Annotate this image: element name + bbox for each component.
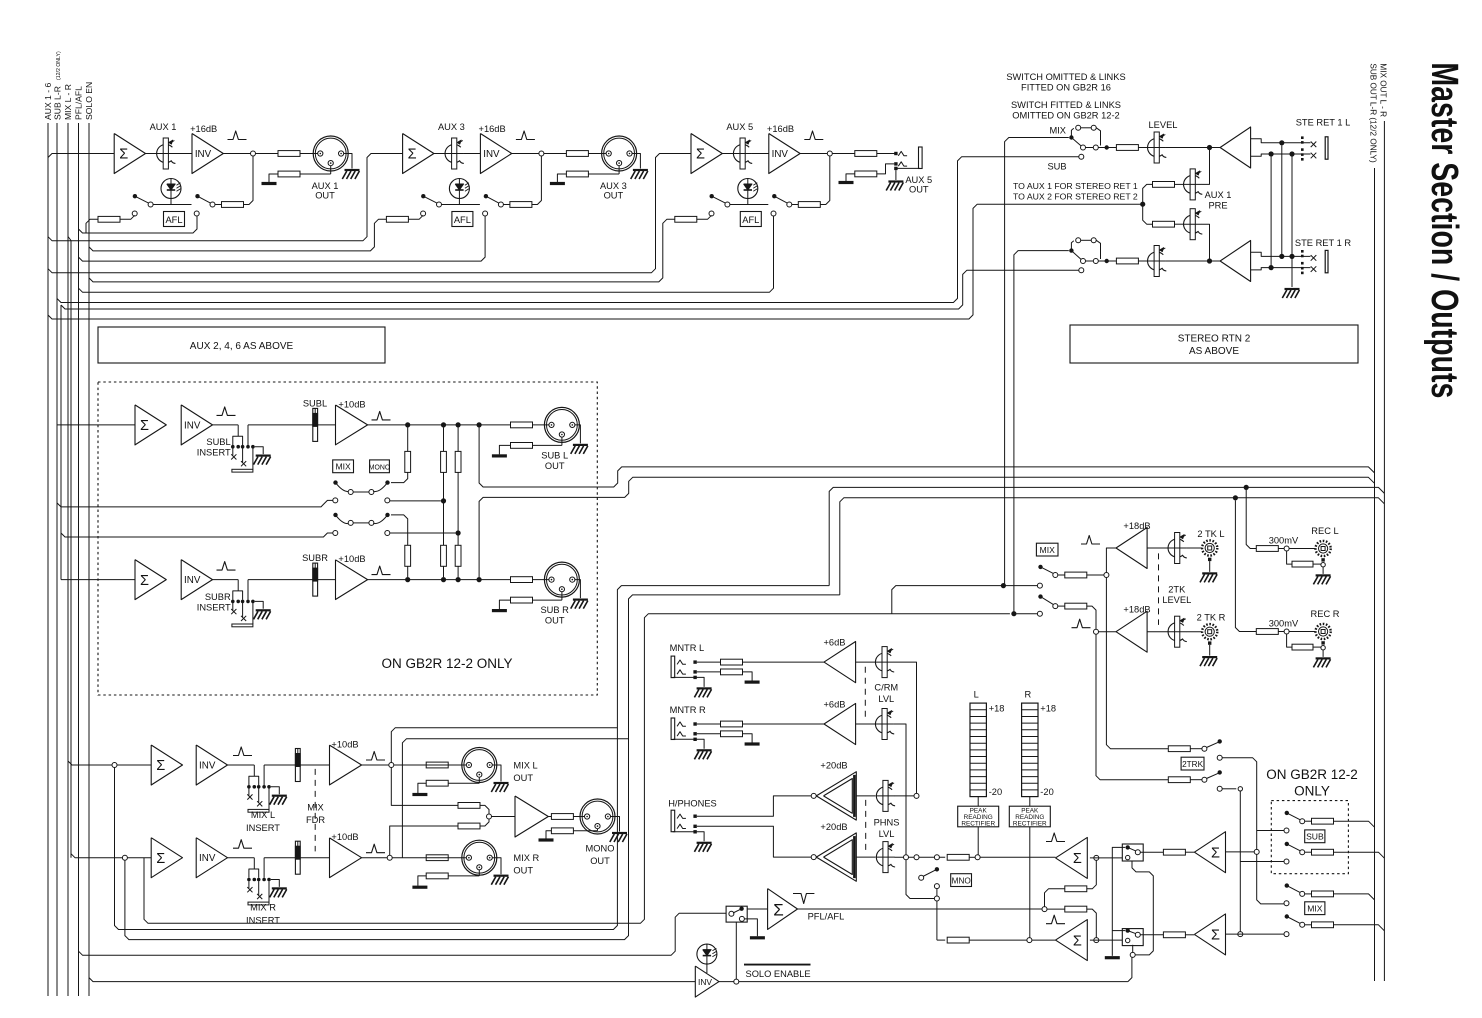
ground MIX L insert — [271, 787, 280, 794]
wire 2TRK R contact to vertical — [1222, 788, 1236, 790]
wire AUX 3 AFL link — [442, 204, 480, 206]
wire STE RET 1 L tip line — [1286, 142, 1311, 144]
fader MIX R MIX FDR — [297, 841, 299, 874]
svg-text:Σ: Σ — [696, 147, 705, 163]
resistor sub network R2b — [441, 545, 447, 566]
junction 2TRK L on sum R input — [1254, 849, 1259, 854]
note box STEREO RTN 2 AS ABOVE — [1070, 325, 1358, 363]
wire SUBR inv to insert — [213, 579, 239, 581]
svg-text:MIX OUT L - R: MIX OUT L - R — [1379, 63, 1388, 117]
inv amp SUBL — [181, 405, 212, 445]
wire switch R to resistor — [1058, 605, 1065, 607]
junction sub network mid R — [456, 530, 461, 535]
wire 2TK L amp to 2TK bus — [1106, 548, 1116, 572]
wire AUX 1 XLR pin2 to ground — [344, 154, 352, 169]
insert jack SUBL — [237, 425, 239, 436]
contact row S1 right — [385, 498, 390, 503]
resistor SUBR cold leg — [511, 597, 533, 603]
wire resistor to switch 2TRK L — [1190, 748, 1202, 750]
junction STE RET R tip — [1279, 254, 1284, 259]
svg-text:AUX 1: AUX 1 — [1205, 190, 1232, 200]
wire AUX 1 AFL to resistor — [215, 204, 221, 206]
switch record source L — [1038, 565, 1042, 569]
wire meter tap to sum amp L — [980, 856, 1055, 858]
switch AUX 1 AFL left — [133, 194, 137, 198]
switch AUX 3 AFL right — [484, 194, 488, 198]
contact 2TK record source R — [1037, 611, 1042, 616]
svg-text:LVL: LVL — [879, 829, 895, 839]
wire AUX 5 AFL link — [730, 204, 768, 206]
wire SUB bus to SUBL sum — [57, 424, 135, 426]
sum amp SUBL — [135, 405, 166, 445]
svg-text:LVL: LVL — [878, 694, 894, 704]
svg-text:AUX 1: AUX 1 — [150, 122, 177, 132]
wire MIX R XLR pin2 to ground — [492, 858, 501, 875]
svg-text:INSERT: INSERT — [246, 916, 280, 926]
wire inverter output — [719, 981, 1128, 983]
ground AUX 3 chassis — [633, 169, 648, 171]
svg-text:300mV: 300mV — [1269, 618, 1299, 628]
pot AUX 1 level — [157, 144, 176, 163]
wire MIX L node riser — [391, 728, 617, 763]
resistor AUX 1 PRE — [1153, 182, 1175, 188]
resistor AUX 3 solo feed — [386, 216, 408, 222]
junction REC R attenuator — [1284, 629, 1289, 634]
XLR connector MONO OUT — [580, 799, 615, 834]
junction dot aux pre split — [1140, 202, 1145, 207]
waveform glyph 2TK R — [1072, 619, 1091, 628]
svg-text:MIX L - R: MIX L - R — [63, 84, 73, 120]
resistor MIX D — [1312, 922, 1334, 928]
wire meter L to rectifier — [977, 797, 979, 807]
resistor monitor R stage2 — [1163, 932, 1185, 938]
ground 2TK R — [1202, 656, 1217, 658]
wire REC R resistor to pin — [1278, 631, 1284, 633]
svg-text:MIX L: MIX L — [251, 810, 275, 820]
resistor monitor L stage2 — [1163, 849, 1185, 855]
wire MONO XLR pin3 stem — [597, 829, 599, 831]
wire resistor to AUX2 PRE pot — [1175, 223, 1184, 225]
waveform glyph 2TK L — [1081, 536, 1100, 545]
resistor sub network R2a — [441, 451, 447, 472]
wire MNTR R ring resistor to ground bar — [743, 734, 753, 743]
box peak reading rectifier R — [1009, 806, 1050, 827]
wire MNO contact riser — [936, 889, 938, 940]
XLR connector AUX 1 OUT — [313, 136, 348, 171]
ground SUBL chassis — [573, 444, 588, 446]
switch AUX 1 AFL right — [195, 194, 199, 198]
svg-text:SUBL: SUBL — [206, 437, 230, 447]
wire 2TK R amp to junction — [1099, 631, 1117, 633]
wire MIX L XLR pin3 stem — [478, 777, 480, 783]
wire MIX L cold resistor to pin3 — [448, 782, 479, 784]
wire MIX R amp to XLR — [362, 857, 467, 859]
label 2TRK — [1181, 757, 1204, 770]
switch label MONO sub mode — [370, 460, 390, 473]
svg-text:MNO: MNO — [952, 876, 971, 885]
junction sleeve L — [1289, 151, 1294, 156]
pot 2TK LEVEL L — [1168, 539, 1187, 558]
svg-text:TO AUX 2 FOR STEREO RET 2: TO AUX 2 FOR STEREO RET 2 — [1013, 192, 1138, 202]
bus wire AUX 1-6 — [47, 123, 49, 996]
resistor AUX 2 PRE — [1153, 221, 1175, 227]
svg-text:Σ: Σ — [1211, 845, 1220, 861]
svg-text:SUB R: SUB R — [540, 605, 569, 615]
wire MIX R fader to amp — [300, 857, 329, 859]
wire 2TK L connector ground stem — [1208, 558, 1211, 561]
contact SUB B — [1284, 859, 1289, 864]
svg-text:AUX 1: AUX 1 — [312, 181, 339, 191]
wire rec L tap riser — [1246, 490, 1256, 549]
wire MNTR L pot to monitor bus — [894, 662, 917, 793]
wire 2TK L bus down to 2TRK switch — [1106, 578, 1168, 749]
svg-text:OUT: OUT — [545, 461, 565, 471]
wire PHONES R amp to pot — [856, 856, 875, 858]
sum amp MIX R — [151, 838, 182, 878]
wire meter R tap to sum amp R — [1032, 939, 1056, 941]
svg-text:SOLO ENABLE: SOLO ENABLE — [746, 969, 811, 979]
XLR connector MIX R OUT — [462, 840, 497, 875]
wire normalling L tip to R tip — [1281, 145, 1283, 256]
svg-text:TO AUX 1 FOR STEREO RET 1: TO AUX 1 FOR STEREO RET 1 — [1013, 181, 1138, 191]
svg-text:FITTED ON GB2R 16: FITTED ON GB2R 16 — [1021, 83, 1111, 93]
wire 2TK R amp to pot — [1147, 631, 1168, 633]
wire SOLO bus to AUX 3 resistor — [89, 219, 386, 251]
wire AUX 1 XLR pin3 stem — [330, 166, 332, 174]
wire PFL junction riser to resistor — [1045, 889, 1065, 907]
relay mute box L — [1122, 844, 1143, 861]
wire SOLO bus to inverter — [89, 978, 695, 982]
XLR connector SUBR OUT — [544, 562, 579, 597]
wire 2TRK L contact to vertical — [1222, 758, 1284, 904]
bus wire PFL/AFL — [78, 123, 80, 996]
svg-text:R: R — [1024, 690, 1031, 700]
ground REC R — [1316, 657, 1331, 659]
resistor AUX 5 cold leg — [855, 171, 877, 177]
pot PHONES R PHNS LVL — [876, 848, 895, 867]
gang dashed line 2TK LEVEL — [1158, 553, 1160, 625]
switch AUX 5 AFL right — [772, 194, 776, 198]
XLR connector SUBL OUT — [544, 407, 579, 442]
switch STE RET 1 R mix/sub select — [1069, 248, 1073, 252]
switch monitor source SUB A — [1285, 811, 1289, 815]
bus wire MIX L — [67, 123, 69, 996]
wire SUBL resistor to XLR — [533, 424, 549, 426]
bus wire MIX R — [68, 237, 71, 858]
jack STE RET 1 R ring break contact — [1311, 266, 1317, 272]
wire AUX 3 inv to node — [512, 153, 539, 155]
wire mono amp to resistor — [548, 816, 551, 818]
svg-text:STE RET 1 L: STE RET 1 L — [1296, 118, 1351, 128]
svg-text:Σ: Σ — [156, 758, 165, 774]
square pulse glyph PFL — [793, 894, 814, 904]
svg-text:Master Section / Outputs: Master Section / Outputs — [1423, 62, 1465, 398]
wire STE RET 1 R to resistor — [1086, 260, 1094, 262]
wire PFL bus to solo switch — [79, 913, 727, 955]
wire third loop leg — [144, 614, 1010, 924]
jack MNTR L output — [671, 656, 675, 678]
resistor mono from L — [458, 803, 480, 809]
dashed box ON GB2R 12-2 ONLY — [98, 382, 597, 695]
contact row S2 right — [385, 531, 390, 536]
amp MNTR L +6dB — [824, 642, 856, 683]
wire AUX bus to AUX 3 sum — [48, 154, 403, 241]
meter bargraph L — [970, 703, 986, 797]
svg-text:INV: INV — [483, 149, 500, 160]
wire AUX bus to AUX 1 sum — [48, 154, 114, 158]
wire REC L ground stem — [1322, 567, 1324, 574]
wire AUX 5 pot to inv — [752, 153, 769, 155]
wire MIX R node to mono resistor — [390, 826, 458, 855]
ground bar MNTR L — [745, 680, 760, 683]
junction phones L on CRM bus — [914, 793, 919, 798]
junction STE RET L tip — [1279, 140, 1284, 145]
svg-text:PFL/AFL: PFL/AFL — [808, 912, 845, 922]
svg-text:REC R: REC R — [1311, 609, 1340, 619]
svg-text:300mV: 300mV — [1269, 535, 1299, 545]
wire SUBL node to resistor R1a — [407, 428, 409, 452]
wire AUX 3 cold resistor to pin3 — [588, 173, 619, 175]
contact STE RET 1 R SUB input — [1079, 268, 1084, 273]
sum amp monitor R stage2 — [1194, 914, 1225, 955]
junction STE RET R ring — [1269, 265, 1274, 270]
svg-text:Σ: Σ — [140, 573, 149, 589]
inv amp AUX 1 +16dB — [192, 134, 223, 174]
wire relay R to resistor — [1140, 934, 1163, 936]
svg-text:RECTIFIER: RECTIFIER — [961, 820, 995, 827]
wire relay L to resistor — [1140, 851, 1163, 853]
wire SUBL inv to insert — [213, 424, 239, 426]
box peak reading rectifier L — [958, 806, 999, 827]
svg-text:MONO: MONO — [369, 464, 391, 471]
contact 2TRK L — [1217, 755, 1222, 760]
wire resistor R to meter tap — [969, 939, 1027, 941]
wire STE RET 1 L to resistor — [1086, 147, 1094, 149]
wire AUX 3 AFL to resistor — [504, 204, 510, 206]
switch S2 sub mode lower — [333, 513, 337, 517]
svg-text:PFL/AFL: PFL/AFL — [74, 86, 84, 120]
wire switch L to resistor — [1058, 574, 1065, 576]
ground bar AUX 5 — [839, 181, 854, 184]
svg-text:Σ: Σ — [156, 851, 165, 867]
wire REC R to connector — [1289, 631, 1315, 633]
junction SUBR node x407 — [405, 577, 410, 582]
wire sum R to relay box — [1090, 939, 1122, 941]
wire AUX 1 cold resistor to ground bar — [269, 174, 278, 182]
resistor monitor R feed — [947, 937, 969, 943]
svg-text:MIX: MIX — [1049, 126, 1066, 136]
resistor MIX C — [1312, 891, 1334, 897]
resistor MONO output — [551, 814, 573, 820]
contact MIX D — [1284, 932, 1289, 937]
wire phones ring to lower amp — [697, 826, 811, 857]
switch box PFL/AFL — [726, 906, 747, 922]
wire monitor R line — [937, 939, 945, 941]
wire to AUX2 PRE resistor — [1143, 204, 1153, 224]
wire MIX L insert to fader — [264, 764, 295, 766]
wire PFL sum output — [798, 908, 1043, 910]
wire SUB L to stereo return switches — [57, 157, 1079, 303]
svg-text:(12/2 ONLY): (12/2 ONLY) — [56, 51, 62, 80]
wire CRM R bus to select contact — [906, 860, 934, 899]
link jumper STE RET 1 R — [1071, 241, 1073, 249]
jack AUX 5 OUT bar — [919, 147, 923, 169]
resistor REC L feed — [1256, 546, 1278, 552]
resistor AUX 5 output — [855, 151, 877, 157]
resistor sub network R3a — [455, 451, 461, 472]
wire AUX 5 solo resistor to contact — [697, 215, 712, 219]
junction MIX L distribution tap — [112, 763, 117, 768]
wire MNTR R pot to monitor bus — [894, 724, 906, 855]
junction SUBL node x458 — [456, 422, 461, 427]
wire pot to 2TK L connector — [1186, 547, 1202, 549]
wire R3b to SUBR line — [457, 566, 459, 577]
svg-text:OUT: OUT — [909, 185, 929, 195]
wire MONO XLR pin2 to ground — [611, 817, 620, 832]
svg-text:2TK: 2TK — [1168, 584, 1186, 594]
junction rec L on mix line — [1244, 485, 1249, 490]
amp 2TK R +18dB — [1116, 611, 1147, 652]
svg-text:OUT: OUT — [604, 191, 624, 201]
wire SUBL XLR pin2 to ground — [575, 425, 581, 444]
ground bar MIX L — [412, 793, 427, 796]
junction 2TRK R corner — [1238, 787, 1242, 791]
sum amp AUX 1 — [114, 134, 145, 174]
wire AUX 1 inv to node — [224, 153, 251, 155]
wire R2a down to junction — [443, 472, 445, 545]
contact AUX 5 solo lower left — [709, 211, 714, 216]
wire S2 right contact to network — [390, 532, 456, 534]
resistor sub network R1b — [405, 545, 411, 566]
switch label MIX record source — [1036, 543, 1058, 556]
wire mono R resistor to junction — [480, 819, 489, 826]
junction SUBL node x443 — [441, 422, 446, 427]
sum amp MIX L — [151, 745, 182, 785]
wire REC L resistor to pin — [1278, 548, 1284, 550]
wire sum L stage2 input — [1226, 851, 1255, 853]
LED AUX 3 AFL indicator — [449, 179, 469, 199]
amp 2TK L +18dB — [1116, 528, 1147, 569]
wire REC R ground stem — [1322, 650, 1324, 657]
switch S1 sub mode upper — [333, 480, 337, 484]
wire MNTR L tip square to resistor — [697, 661, 721, 663]
wire MIX bus to MIX L sum — [68, 761, 151, 765]
ground bar SUBR — [492, 609, 507, 612]
svg-text:OUT: OUT — [545, 616, 565, 626]
resistor MIX L output — [426, 762, 448, 768]
resistor SUBL output — [511, 422, 533, 428]
waveform glyph SUBR post — [372, 566, 391, 575]
wire AUX 3 cold resistor to ground bar — [557, 174, 566, 182]
amp STE RET 1 R return buffer — [1220, 241, 1251, 282]
svg-text:INSERT: INSERT — [197, 602, 231, 612]
wire MIX R insert to fader — [264, 857, 295, 859]
wire SUBR cold resistor to ground bar — [499, 600, 510, 609]
wire resistor to meter tap — [969, 856, 975, 858]
svg-text:INSERT: INSERT — [246, 823, 280, 833]
wire PFL resistor R to sum input — [1087, 909, 1097, 938]
svg-text:MIX L: MIX L — [513, 760, 537, 770]
wire 2TRK R tee to SUB switch B — [1240, 861, 1284, 863]
pot STE RET 1 R LEVEL — [1148, 252, 1167, 271]
switch STE RET 1 L mix/sub select — [1069, 135, 1073, 139]
resistor mono from R — [458, 823, 480, 829]
ground SUBR chassis — [573, 598, 588, 600]
wire SUBR XLR pin2 to ground — [575, 580, 581, 599]
wire SUBL node to resistor R2a — [443, 428, 445, 452]
wire MIX R cold resistor to pin3 — [448, 875, 479, 877]
contact row S2 left — [333, 531, 338, 536]
svg-text:MONO: MONO — [586, 844, 615, 854]
wire REC L shunt resistor — [1287, 551, 1292, 564]
resistor AUX 1 AFL feed — [222, 202, 244, 208]
wire resistor to sum amp R stage2 — [1185, 934, 1194, 936]
resistor sub network R1a — [405, 451, 411, 472]
wire SUB B resistor to output column — [1334, 852, 1385, 858]
wire SUBL node to resistor R3a — [457, 428, 459, 452]
resistor REC R shunt — [1292, 644, 1313, 650]
junction MIX R output node — [387, 855, 392, 860]
resistor SUBR output — [511, 577, 533, 583]
svg-text:SUBR: SUBR — [205, 592, 231, 602]
amp MNTR R +6dB — [824, 703, 856, 744]
wire MIX R cold resistor to ground bar — [418, 876, 426, 886]
sum amp PFL/AFL — [768, 889, 798, 930]
contact AUX 1 solo lower right — [194, 211, 199, 216]
waveform glyph MIX L post — [366, 752, 385, 761]
wire STE RET 1 L resistor to pot — [1138, 147, 1147, 149]
switch label MNO — [951, 874, 972, 887]
insert jack MIX R — [253, 858, 255, 869]
wire relay R coil stem — [1132, 945, 1134, 953]
wire SUBR XLR pin3 stem — [561, 592, 563, 600]
svg-text:+10dB: +10dB — [338, 399, 365, 409]
wire SUBR resistor to XLR — [533, 579, 549, 581]
wire PFL bus to AUX 3 contact — [79, 216, 486, 261]
sum amp AUX 5 — [691, 134, 722, 174]
svg-text:+10dB: +10dB — [331, 740, 358, 750]
svg-text:AUX 5: AUX 5 — [905, 175, 932, 185]
svg-text:FDR: FDR — [306, 815, 325, 825]
wire PHONES L amp to pot — [856, 795, 875, 797]
resistor AUX 3 output — [566, 151, 588, 157]
svg-text:MIX: MIX — [335, 462, 351, 472]
svg-text:2 TK L: 2 TK L — [1197, 529, 1224, 539]
switch MNO monitor mono — [935, 867, 939, 871]
svg-text:+6dB: +6dB — [824, 700, 846, 710]
junction MIX L to stereo return feed — [1001, 583, 1006, 588]
junction sleeve R — [1289, 254, 1294, 259]
junction monitor L input — [1094, 855, 1099, 860]
wire SUB R to stereo return switches — [61, 270, 1079, 309]
switch label SUB select — [1305, 830, 1325, 843]
contact AUX 5 solo lower right — [771, 211, 776, 216]
junction monitor L tap — [914, 855, 919, 860]
amp SUBR +10dB — [336, 560, 368, 600]
wire resistor to sum amp L stage2 — [1185, 851, 1194, 853]
wire STE RET 1 L ring line — [1276, 153, 1311, 155]
waveform glyph AUX 1 — [228, 131, 247, 140]
resistor STE RET 1 L input — [1116, 145, 1138, 151]
resistor AUX 1 cold leg — [278, 171, 300, 177]
svg-text:MIX: MIX — [1040, 545, 1056, 555]
svg-text:AFL: AFL — [165, 215, 182, 225]
resistor SUB A — [1312, 818, 1334, 824]
switch 2TRK L — [1207, 742, 1219, 747]
contact MNO lower — [934, 884, 939, 889]
resistor MNTR R ring — [721, 731, 743, 737]
wire to AUX1 PRE resistor — [1143, 184, 1153, 204]
